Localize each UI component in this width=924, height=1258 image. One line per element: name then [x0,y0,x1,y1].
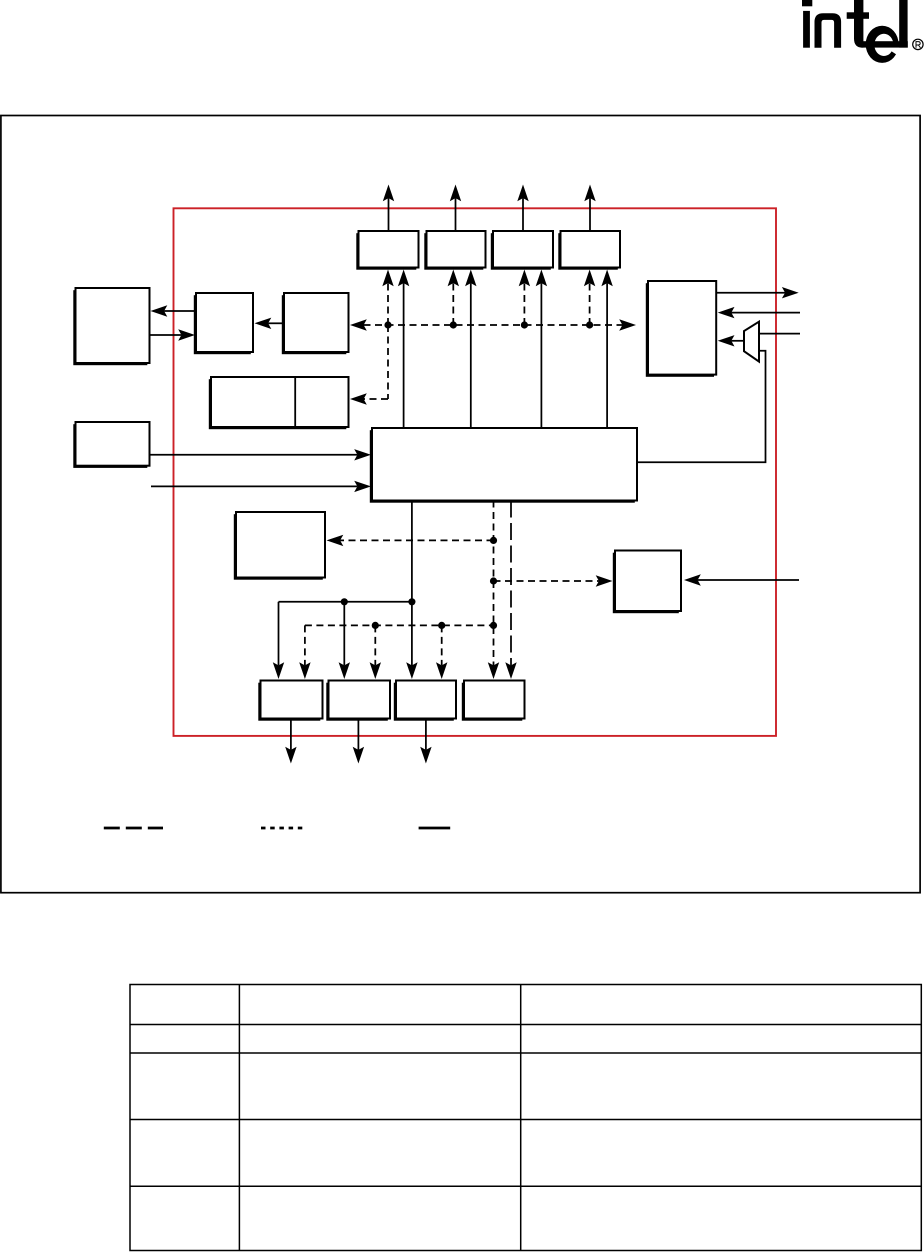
wire E output right [716,287,799,298]
wire C to B [255,318,285,329]
block P4 (port unit 4) [462,681,525,721]
dashed horizontal control bus [350,319,636,330]
dashed branch into register pair [350,325,388,405]
wire external into R2 [684,574,799,585]
block SEQ (lower left) [234,512,325,580]
wire bus up into T1 [398,270,409,429]
block P1 (port unit 1) [258,681,322,721]
red chip boundary [174,208,777,736]
register pair block [209,377,349,429]
wire timer4 output up [584,185,595,232]
long-dash wire into P4 [505,501,516,680]
block P3 (port unit 3) [394,681,456,721]
dashed branch bus horizontal [305,622,494,629]
block E (bus interface right) [646,281,716,377]
wire P3 output down [420,719,431,764]
dashed wire up into T4 [584,270,595,326]
dashed wire down into P2 [370,625,381,679]
block T2 (top pin unit 2) [424,231,485,270]
dashed wire up into T3 [519,270,530,326]
figure outer frame [1,116,920,893]
dashed wire up into T2 [448,270,459,326]
block CENTRAL (bus control unit) [370,428,637,503]
wire P1 output down [285,719,296,764]
block T4 (top pin unit 4) [558,231,620,270]
solid wire down into P2 [339,602,350,679]
wire timer3 output up [517,185,528,232]
solid wire trunk down from central [341,501,418,680]
block D (external left lower) [73,422,149,468]
dashed wire down into P1 [299,625,310,679]
dashed vertical trunk [488,501,499,680]
dashed wire into SEQ [327,535,494,546]
wire A to B [150,329,196,340]
dashed wire into R2 [494,575,613,586]
wire bus up into T3 [536,270,547,429]
block T1 (top pin unit 1) [356,231,418,270]
solid wire down into P1 [273,602,284,679]
wire P2 output down [353,719,364,764]
block B (buffer) [194,293,253,354]
mux buffer [744,322,759,362]
wire bus up into T4 [601,270,612,429]
intel logo [802,0,923,63]
solid branch bus horizontal [279,601,412,603]
legend solid sample [419,827,451,830]
dashed wire up into T1 [382,270,393,326]
wire central box to mux [637,351,766,463]
wire bus up into T2 [465,270,476,429]
block P2 (port unit 2) [326,681,390,721]
legend long-dash sample [104,827,163,830]
legend short-dash sample [261,827,306,830]
block T3 (top pin unit 3) [491,231,553,270]
wire input2 into central [151,481,371,492]
wire mux select input [759,333,800,335]
block A (external left top) [73,288,149,365]
wire D into central [150,449,372,460]
wire mux to E [718,335,744,346]
wire timer1 output up [383,185,394,232]
block C (latch) [282,293,349,354]
wire timer2 output up [450,185,461,232]
dashed wire down into P3 [436,625,447,679]
wire B to A [151,305,197,316]
wire input into E [718,307,800,318]
block R2 (clock input right) [613,551,681,614]
signal description table [130,985,921,1251]
